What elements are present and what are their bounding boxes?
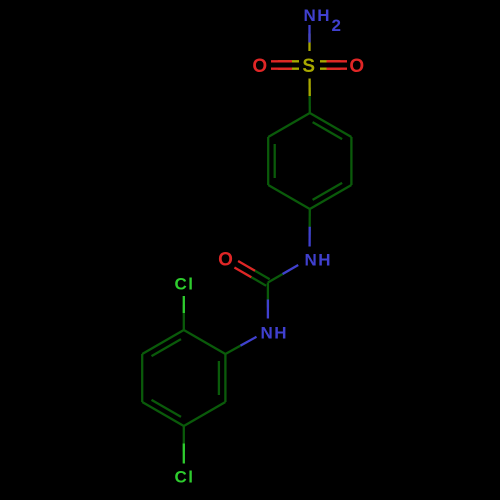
ring2 benzene edge3 (142, 402, 184, 426)
ring1 benzene edge2 (310, 185, 352, 209)
svg-text:Cl: Cl (175, 468, 195, 487)
bond C3-N2 carbon half (267, 283, 269, 308)
ring2 benzene edge2 (184, 402, 226, 426)
bond N1-C3 nitrogen half (283, 265, 299, 274)
svg-text:O: O (218, 250, 234, 271)
bond N1-C3 carbon half (268, 270, 290, 283)
ring2 benzene edge1 (224, 354, 226, 402)
bond C3=O2 carbon half (244, 273, 266, 286)
bond S=O left oxygen half (271, 68, 292, 70)
svg-text:S: S (302, 56, 316, 77)
ring1 benzene inner double2 (313, 183, 343, 200)
bond NH2-S nitrogen half (308, 25, 310, 43)
ring1 benzene edge0 (310, 113, 352, 137)
bond ring1-N1 nitrogen half (308, 227, 310, 247)
svg-text:Cl: Cl (175, 275, 195, 294)
svg-text:O: O (252, 56, 268, 77)
ring2 benzene edge4 (141, 354, 143, 402)
bond S-ring1 carbon half (308, 88, 310, 113)
bond ring2-Cl_top chlorine half (183, 296, 185, 313)
bond ring2-Cl_bot chlorine half (183, 444, 185, 464)
ring2 benzene edge5 (142, 330, 184, 354)
ring1 benzene edge4 (267, 137, 269, 185)
ring1 benzene edge3 (268, 185, 310, 209)
bond ring2-Cl_bot carbon half (183, 426, 185, 452)
bond ring2-Cl_top carbon half (183, 305, 185, 330)
ring2 benzene inner double1 (218, 361, 220, 395)
bond N2-ring2 nitrogen half (241, 337, 257, 346)
bond S=O left sulfur half (278, 68, 299, 70)
ring2 benzene edge0 (184, 330, 226, 354)
bond S=O right oxygen half (327, 68, 348, 70)
ring1 benzene edge1 (350, 137, 352, 185)
bond S=O left oxygen half (271, 60, 292, 62)
bond S-ring1 sulfur half (308, 79, 310, 97)
ring1 benzene inner double4 (274, 144, 276, 178)
ring1 benzene inner double0 (313, 122, 343, 139)
bond C3=O2 oxygen half (234, 268, 251, 278)
ring2 benzene inner double3 (152, 400, 182, 417)
svg-text:2: 2 (332, 16, 343, 35)
svg-text:NH: NH (305, 251, 333, 270)
svg-text:NH: NH (261, 324, 289, 343)
ring1 benzene edge5 (268, 113, 310, 137)
bond ring1-N1 carbon half (308, 209, 310, 235)
bond N2-ring2 carbon half (225, 342, 247, 354)
bond C3-N2 nitrogen half (267, 300, 269, 319)
bond C3=O2 carbon half (248, 267, 270, 280)
bond C3=O2 oxygen half (238, 261, 255, 271)
ring2 benzene inner double5 (152, 339, 182, 356)
bond S=O right sulfur half (320, 60, 341, 62)
svg-text:NH: NH (304, 6, 332, 25)
bond S=O left sulfur half (278, 60, 299, 62)
bond NH2-S sulfur half (308, 34, 310, 52)
bond S=O right oxygen half (327, 60, 348, 62)
svg-text:O: O (349, 56, 365, 77)
bond S=O right sulfur half (320, 68, 341, 70)
